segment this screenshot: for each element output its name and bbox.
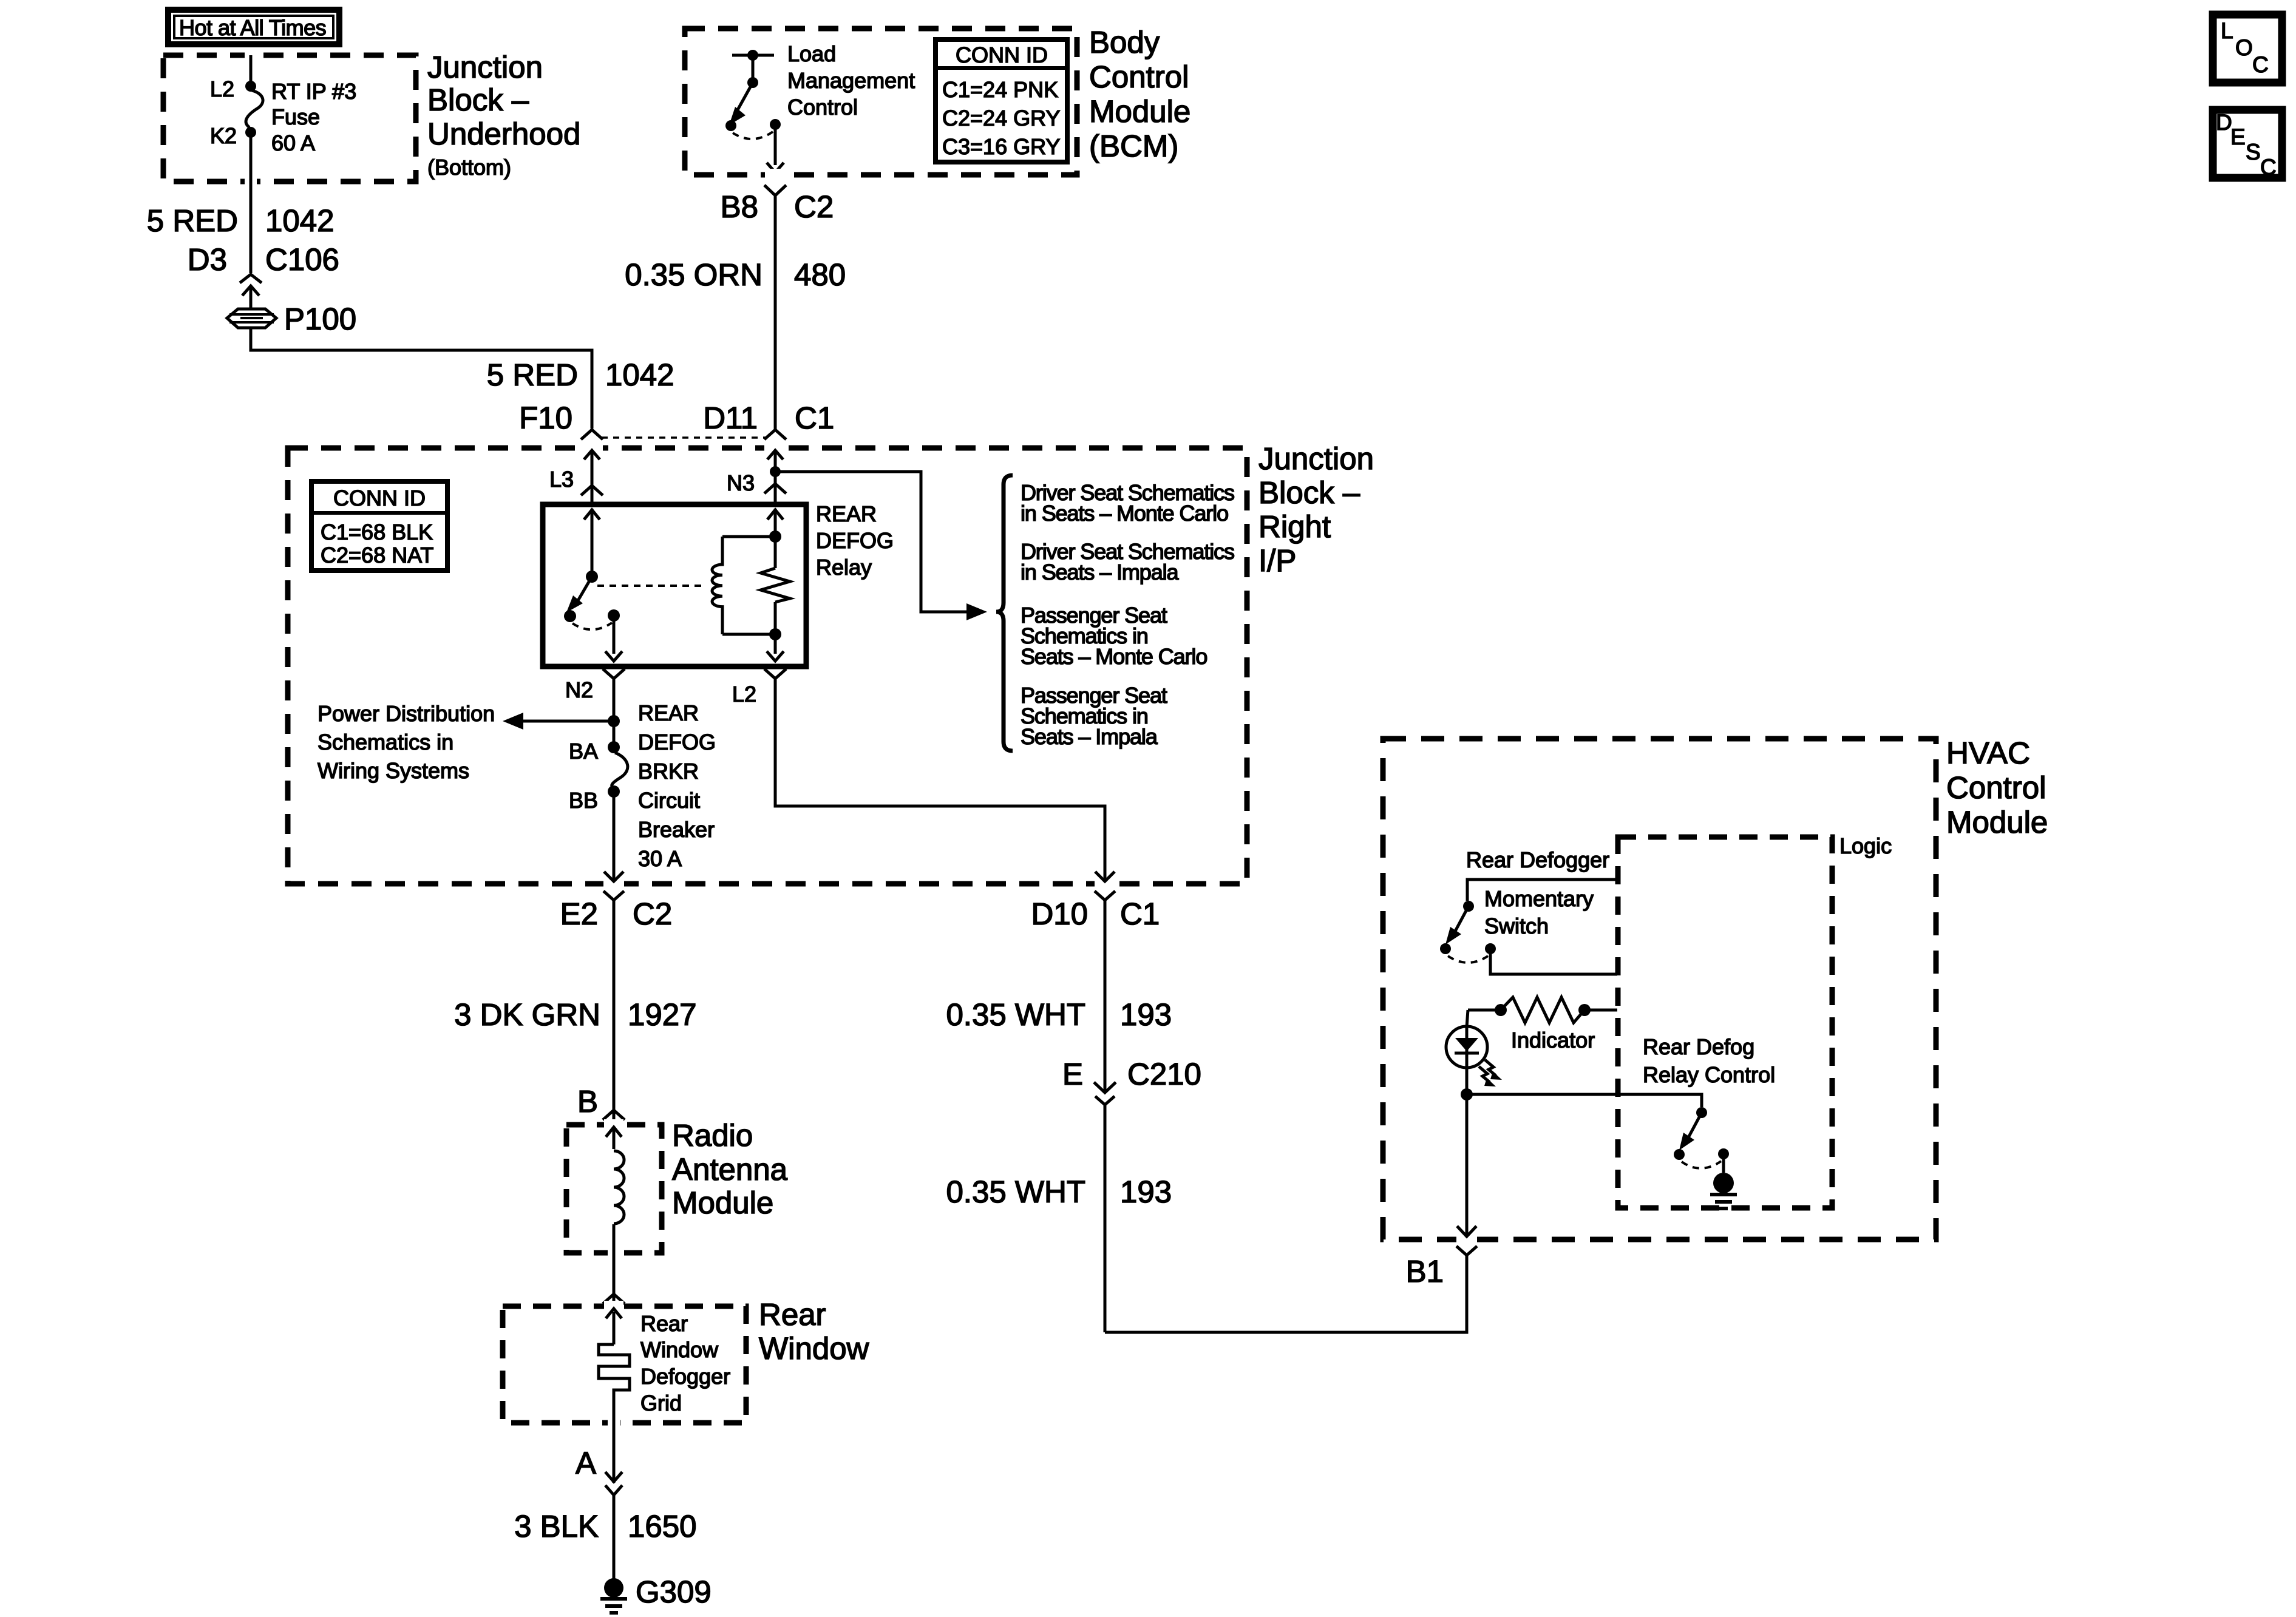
svg-text:in Seats – Impala: in Seats – Impala [1021, 560, 1180, 585]
logic label [1839, 833, 1892, 858]
svg-text:(BCM): (BCM) [1089, 129, 1178, 163]
seat schematics references [1021, 480, 1234, 749]
svg-text:G309: G309 [636, 1575, 712, 1609]
wire label 5 RED 1042 [147, 203, 335, 238]
svg-text:C1=24 PNK: C1=24 PNK [942, 77, 1058, 102]
svg-text:0.35 WHT: 0.35 WHT [946, 997, 1085, 1032]
relay label REAR DEFOG Relay [816, 501, 894, 580]
svg-text:C1=68 BLK: C1=68 BLK [321, 520, 433, 544]
svg-text:BA: BA [569, 739, 598, 764]
ground G309 [600, 1575, 712, 1613]
svg-text:Schematics in: Schematics in [318, 730, 453, 754]
svg-text:Hot at All Times: Hot at All Times [179, 15, 326, 40]
svg-text:D10: D10 [1031, 897, 1088, 931]
relay resistor [761, 509, 790, 661]
connector B (radio antenna module) [577, 1084, 625, 1149]
connector C1 row (F10 / D11) [519, 401, 834, 439]
grommet P100 [227, 302, 356, 336]
power distribution label [318, 701, 495, 783]
circuit breaker REAR DEFOG BRKR [569, 700, 716, 871]
svg-text:Indicator: Indicator [1511, 1028, 1595, 1053]
svg-text:RT IP #3: RT IP #3 [271, 79, 356, 104]
svg-text:1650: 1650 [628, 1509, 696, 1544]
svg-text:Radio: Radio [672, 1118, 753, 1153]
HVAC control module box [1383, 739, 1936, 1239]
svg-text:K2: K2 [210, 123, 237, 148]
terminal L3 [549, 442, 603, 504]
connector A [576, 1423, 622, 1579]
wire: breaker to E2 [603, 792, 624, 889]
svg-text:B: B [577, 1084, 598, 1119]
wire label 0.35 WHT 193 [946, 983, 1172, 1092]
svg-text:3 BLK: 3 BLK [514, 1509, 599, 1544]
svg-text:3 DK GRN: 3 DK GRN [454, 997, 600, 1032]
connector C1 (D10) [1031, 891, 1160, 983]
svg-text:Management: Management [787, 68, 915, 93]
svg-text:E: E [2230, 124, 2246, 149]
wire: P100 down, right, to F10 [251, 328, 592, 429]
wire: B1 down [1456, 1094, 1477, 1245]
connector C2 (E2) [560, 891, 673, 983]
svg-text:Module: Module [672, 1185, 773, 1220]
brace [996, 475, 1013, 751]
svg-text:D3: D3 [188, 242, 227, 277]
svg-text:Underhood: Underhood [427, 117, 580, 151]
svg-text:E: E [1062, 1057, 1083, 1091]
svg-text:Switch: Switch [1484, 914, 1549, 938]
terminal N2 [565, 669, 625, 747]
svg-text:Block –: Block – [427, 83, 529, 117]
node N2 junction [608, 715, 620, 727]
svg-text:480: 480 [794, 257, 846, 292]
svg-text:193: 193 [1120, 997, 1172, 1032]
svg-text:Control: Control [1946, 770, 2046, 805]
rear window label [759, 1297, 869, 1366]
svg-text:Window: Window [640, 1337, 719, 1362]
wire: feed stub into fuse [245, 51, 257, 85]
svg-text:CONN ID: CONN ID [956, 42, 1048, 67]
connector C2 (B8) [721, 169, 834, 263]
svg-text:D: D [2216, 110, 2232, 135]
rear defog relay control [1461, 1034, 1775, 1168]
svg-text:REAR: REAR [816, 501, 877, 526]
svg-text:Fuse: Fuse [271, 104, 320, 129]
svg-text:Rear Defog: Rear Defog [1643, 1034, 1754, 1059]
svg-text:Momentary: Momentary [1484, 886, 1594, 911]
svg-text:A: A [576, 1446, 596, 1480]
svg-text:E2: E2 [560, 897, 598, 931]
svg-text:BRKR: BRKR [638, 759, 699, 784]
svg-text:DEFOG: DEFOG [638, 730, 716, 754]
svg-text:C2: C2 [794, 189, 834, 224]
radio antenna coil [604, 1119, 624, 1294]
svg-text:Antenna: Antenna [672, 1152, 788, 1187]
svg-text:Rear Defogger: Rear Defogger [1466, 847, 1609, 872]
svg-text:Seats – Monte Carlo: Seats – Monte Carlo [1021, 644, 1207, 669]
svg-text:1042: 1042 [265, 203, 334, 238]
wire: K2 down to connector C106 [245, 132, 257, 273]
svg-text:L3: L3 [549, 467, 574, 492]
svg-text:193: 193 [1120, 1175, 1172, 1209]
svg-text:C210: C210 [1127, 1057, 1201, 1091]
svg-text:L2: L2 [210, 76, 234, 101]
svg-text:Wiring Systems: Wiring Systems [318, 758, 469, 783]
relay link (dashed) [597, 585, 705, 587]
svg-text:Junction: Junction [427, 50, 543, 84]
svg-text:REAR: REAR [638, 700, 699, 725]
node L2 [210, 76, 256, 101]
junction block underhood label [427, 50, 580, 180]
connector C210 (E) [1062, 1057, 1201, 1332]
wire: L2 to D10 [775, 679, 1115, 889]
svg-text:Control: Control [787, 95, 858, 120]
radio antenna module box [566, 1125, 662, 1253]
indicator LED [1446, 1010, 1595, 1094]
svg-text:Control: Control [1089, 59, 1189, 94]
svg-text:Right: Right [1258, 509, 1331, 544]
svg-text:0.35 WHT: 0.35 WHT [946, 1175, 1085, 1209]
node K2 [210, 123, 256, 148]
wire label 3 BLK 1650 [514, 1509, 696, 1544]
relay switch [564, 509, 622, 661]
terminal N3 [727, 442, 786, 504]
arrow to power distribution [503, 713, 614, 730]
svg-text:(Bottom): (Bottom) [427, 155, 511, 180]
logic ground [1710, 1154, 1737, 1209]
svg-text:Rear: Rear [759, 1297, 826, 1332]
svg-text:Junction: Junction [1258, 441, 1374, 476]
svg-text:5 RED: 5 RED [487, 358, 578, 392]
svg-text:L: L [2221, 18, 2233, 43]
svg-text:Window: Window [759, 1331, 869, 1366]
body control module label [1089, 25, 1190, 163]
svg-text:C1: C1 [1120, 897, 1160, 931]
svg-text:Body: Body [1089, 25, 1160, 59]
svg-text:Breaker: Breaker [638, 817, 715, 842]
inline connector (radio antenna to rear window) [603, 1294, 625, 1344]
junction block underhood box [163, 55, 416, 181]
svg-text:F10: F10 [519, 401, 572, 435]
radio antenna module label [672, 1118, 788, 1220]
svg-text:DEFOG: DEFOG [816, 528, 894, 553]
svg-text:Grid: Grid [640, 1391, 682, 1415]
junction block right I/P box [288, 448, 1247, 884]
body control module box [685, 29, 1077, 175]
conn id table (junction block) [311, 481, 447, 571]
svg-text:Relay Control: Relay Control [1643, 1062, 1775, 1087]
DESC box [2213, 110, 2282, 180]
svg-text:Circuit: Circuit [638, 788, 700, 813]
terminal L2 (relay) [732, 669, 786, 707]
svg-text:1927: 1927 [628, 997, 696, 1032]
svg-text:C3=16 GRY: C3=16 GRY [942, 134, 1060, 159]
svg-text:Block –: Block – [1258, 475, 1360, 510]
svg-text:30 A: 30 A [638, 846, 682, 871]
svg-text:C2: C2 [633, 897, 672, 931]
svg-text:L2: L2 [732, 682, 756, 707]
svg-text:in Seats – Monte Carlo: in Seats – Monte Carlo [1021, 501, 1228, 526]
svg-text:C1: C1 [795, 401, 834, 435]
conn id table (BCM) [936, 39, 1067, 162]
svg-text:D11: D11 [703, 401, 758, 435]
connector B1 [1406, 1246, 1477, 1332]
rear defogger momentary switch [1440, 847, 1617, 974]
svg-text:Seats – Impala: Seats – Impala [1021, 724, 1158, 749]
connector C106 (D3) [188, 242, 339, 308]
svg-text:5 RED: 5 RED [147, 203, 238, 238]
svg-text:Rear: Rear [640, 1311, 688, 1336]
junction block right I/P label [1258, 441, 1374, 578]
relay box [543, 504, 806, 666]
svg-text:N3: N3 [727, 470, 755, 495]
svg-text:1042: 1042 [605, 358, 674, 392]
svg-text:B8: B8 [721, 189, 758, 224]
wire label 0.35 ORN 480 [625, 257, 846, 430]
svg-text:N2: N2 [565, 677, 593, 702]
logic box [1618, 837, 1832, 1208]
svg-text:O: O [2235, 35, 2253, 60]
rear window defogger grid [599, 1301, 730, 1428]
svg-text:C: C [2252, 52, 2269, 77]
svg-text:0.35 ORN: 0.35 ORN [625, 257, 763, 292]
svg-text:Defogger: Defogger [640, 1364, 730, 1389]
svg-text:CONN ID: CONN ID [333, 486, 426, 510]
wire: to HVAC B1 [1105, 1263, 1467, 1332]
indicator resistor [1468, 997, 1617, 1023]
svg-text:BB: BB [569, 788, 598, 813]
svg-text:Logic: Logic [1839, 833, 1892, 858]
label: Hot at All Times [168, 10, 339, 44]
wire label 3 DK GRN 1927 [454, 983, 696, 1110]
svg-text:C2=24 GRY: C2=24 GRY [942, 106, 1060, 131]
svg-text:Module: Module [1089, 94, 1190, 129]
svg-text:Load: Load [787, 41, 836, 66]
svg-text:C106: C106 [265, 242, 339, 277]
svg-text:Relay: Relay [816, 555, 872, 580]
wire label 0.35 WHT 193 (lower) [946, 1175, 1172, 1209]
svg-text:Module: Module [1946, 805, 2048, 839]
svg-text:B1: B1 [1406, 1254, 1444, 1289]
load management control switch [725, 41, 915, 172]
svg-text:I/P: I/P [1258, 543, 1296, 578]
svg-text:S: S [2246, 140, 2261, 164]
LOC box [2213, 15, 2282, 83]
svg-text:Power Distribution: Power Distribution [318, 701, 495, 726]
svg-text:HVAC: HVAC [1946, 736, 2030, 770]
svg-text:C: C [2260, 155, 2277, 180]
rear window box [503, 1306, 746, 1423]
svg-text:60 A: 60 A [271, 131, 315, 155]
svg-text:C2=68 NAT: C2=68 NAT [321, 543, 433, 568]
svg-text:P100: P100 [284, 302, 356, 336]
fuse RT IP #3 60 A [246, 79, 356, 155]
wire: N3 branch to seat schematics [775, 472, 987, 620]
relay coil [712, 537, 775, 634]
HVAC control module label [1946, 736, 2048, 839]
wire label 5 RED 1042 (lower) [487, 358, 674, 392]
